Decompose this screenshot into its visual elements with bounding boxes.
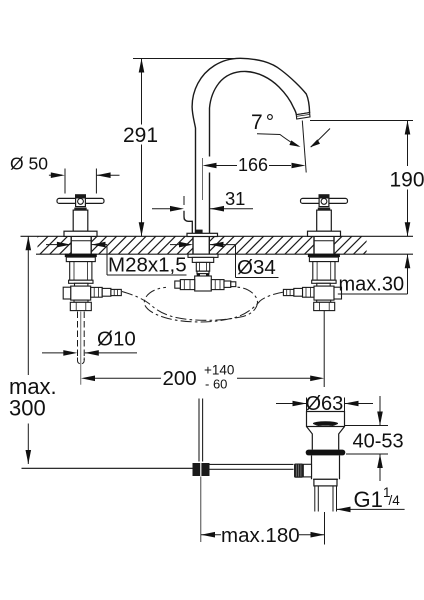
svg-text:/4: /4 bbox=[389, 493, 401, 508]
svg-text:190: 190 bbox=[389, 169, 424, 192]
svg-text:7°: 7° bbox=[251, 111, 274, 134]
svg-text:Ø 50: Ø 50 bbox=[10, 153, 48, 173]
svg-text:max.30: max.30 bbox=[339, 274, 405, 296]
svg-text:M28x1,5: M28x1,5 bbox=[108, 254, 187, 277]
svg-text:Ø10: Ø10 bbox=[97, 328, 136, 351]
svg-text:- 60: - 60 bbox=[205, 377, 227, 392]
svg-text:Ø63: Ø63 bbox=[306, 393, 344, 415]
svg-text:G1: G1 bbox=[354, 487, 383, 512]
svg-text:31: 31 bbox=[225, 188, 245, 209]
svg-text:max.180: max.180 bbox=[221, 524, 300, 547]
svg-text:200: 200 bbox=[163, 367, 197, 390]
svg-text:+140: +140 bbox=[204, 363, 234, 378]
svg-text:40-53: 40-53 bbox=[353, 431, 404, 453]
svg-text:291: 291 bbox=[123, 124, 158, 147]
svg-text:Ø34: Ø34 bbox=[237, 256, 276, 279]
svg-text:300: 300 bbox=[9, 396, 46, 421]
svg-text:166: 166 bbox=[238, 155, 268, 175]
